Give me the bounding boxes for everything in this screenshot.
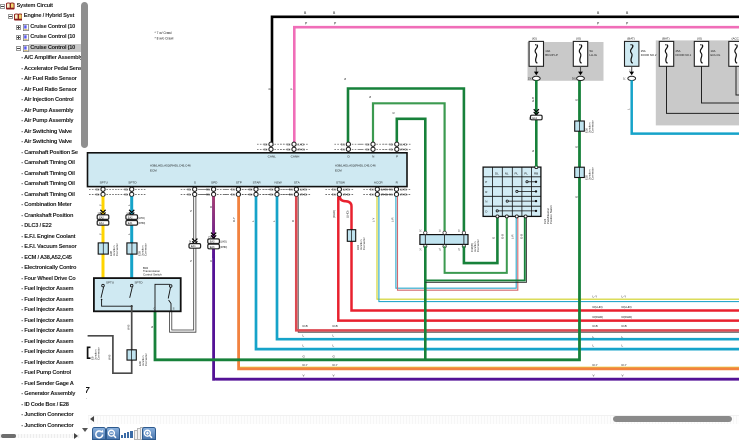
- svg-text:P: P: [305, 22, 308, 26]
- svg-text:(RHD): (RHD): [332, 210, 336, 218]
- tree row: E.F.I. Engine Coolant: [21, 233, 84, 242]
- svg-text:P: P: [485, 180, 487, 184]
- svg-text:(RHD): (RHD): [400, 148, 407, 152]
- svg-text:R(LHD): R(LHD): [622, 305, 632, 309]
- svg-text:V: V: [622, 374, 624, 378]
- node D (ECM top pin): [334, 142, 362, 159]
- wire (fuse F6 feed): [736, 66, 739, 95]
- svg-text:P: P: [396, 155, 398, 159]
- svg-text:(LHD): (LHD): [343, 188, 350, 192]
- svg-text:35(: 35(: [98, 213, 102, 216]
- svg-text:R-B: R-B: [593, 324, 598, 328]
- op-amp/ECU block: ECM A38,A52,C45,C46: [88, 153, 408, 187]
- tree row: Air Pump Assembly: [21, 117, 84, 126]
- fuse F2 5A LH-IG: [572, 36, 597, 80]
- svg-text:30(: 30(: [264, 148, 268, 152]
- wire (fuse F5 feed): [702, 66, 739, 103]
- svg-text:30(: 30(: [572, 77, 576, 81]
- main horizontal scrollbar: [88, 415, 739, 424]
- svg-text:(RHD): (RHD): [381, 193, 388, 197]
- svg-text:30(: 30(: [287, 142, 291, 146]
- svg-text:* 7 w/ Crawl: * 7 w/ Crawl: [155, 31, 172, 35]
- svg-text:(RHD): (RHD): [138, 222, 145, 225]
- wire L-R (R pin to C24): [396, 197, 516, 289]
- svg-text:30(: 30(: [366, 142, 370, 146]
- svg-text:30(: 30(: [332, 188, 336, 192]
- tree row: ID Code Box / E28: [21, 401, 84, 410]
- relay block shading (fuses BK/UP LP group): [528, 42, 604, 81]
- svg-text:STSW: STSW: [336, 181, 345, 185]
- svg-text:R-Y: R-Y: [593, 363, 598, 367]
- wire B (black bus to CANL): [272, 17, 739, 146]
- svg-text:B: B: [626, 11, 629, 15]
- svg-text:L: L: [303, 334, 305, 338]
- wire L (NSW): [277, 197, 739, 340]
- svg-text:30(: 30(: [249, 193, 253, 197]
- tree row: Fuel Injector Assem: [21, 359, 84, 368]
- svg-text:R(LHD): R(LHD): [593, 305, 603, 309]
- svg-text:R(RHD): R(RHD): [622, 315, 633, 319]
- svg-text:STA: STA: [294, 181, 301, 185]
- relay block shading (DOOR NO.1 group): [656, 40, 739, 125]
- node SPD (ECM bottom pin): [200, 181, 228, 197]
- svg-text:CANL: CANL: [268, 155, 277, 159]
- tree row: E.F.I. Vacuum Sensor: [21, 243, 84, 252]
- sidebar horizontal scrollbar: [0, 434, 80, 438]
- svg-text:W-B: W-B: [127, 324, 131, 330]
- svg-text:(BAT): (BAT): [662, 36, 670, 40]
- svg-text:Connector: Connector: [591, 167, 595, 180]
- svg-text:71(: 71(: [208, 236, 212, 239]
- svg-text:EA3: EA3: [210, 241, 215, 244]
- tree row: Crankshaft Position: [21, 212, 84, 221]
- wire L (STAR): [256, 197, 739, 350]
- svg-text:R: R: [209, 206, 213, 208]
- wire (fuse F4 feed): [667, 66, 739, 113]
- svg-text:Connector: Connector: [115, 243, 119, 256]
- node SPTU (ECM bottom pin): [89, 181, 117, 197]
- svg-text:30(: 30(: [124, 188, 128, 192]
- svg-text:9(: 9(: [189, 241, 191, 244]
- svg-text:30(: 30(: [96, 193, 100, 197]
- svg-text:30(: 30(: [370, 193, 374, 197]
- svg-text:G-B: G-B: [501, 234, 505, 239]
- svg-text:G-B: G-B: [531, 97, 535, 102]
- svg-text:RB: RB: [534, 171, 538, 175]
- svg-text:ECM: ECM: [335, 169, 342, 173]
- svg-text:30(: 30(: [289, 188, 293, 192]
- svg-text:L: L: [333, 344, 335, 348]
- svg-text:B: B: [267, 88, 271, 90]
- tree row: Accelerator Pedal Sens: [21, 65, 84, 74]
- svg-text:N: N: [372, 155, 374, 159]
- fuse F1 10A BK/UP LP: [528, 36, 558, 80]
- svg-text:EA2: EA2: [128, 216, 133, 219]
- tree row: System Circuit: [0, 4, 5, 9]
- svg-text:Connector: Connector: [476, 239, 480, 252]
- svg-text:A38(LHD),A52(RHD),C45,C46: A38(LHD),A52(RHD),C45,C46: [335, 164, 376, 168]
- tree row: Combination Meter: [21, 201, 84, 210]
- svg-text:* 8 w/o Crawl: * 8 w/o Crawl: [155, 37, 174, 41]
- svg-text:L: L: [272, 220, 276, 222]
- svg-text:30(: 30(: [389, 142, 393, 146]
- switch grid: C24 Park/Neutral Position Switch: [483, 166, 553, 224]
- svg-text:B: B: [304, 11, 307, 15]
- svg-text:Connector: Connector: [144, 243, 148, 256]
- tree row: Fuel Injector Assem: [21, 317, 84, 326]
- svg-text:30(: 30(: [332, 193, 336, 197]
- svg-text:ECU-IG: ECU-IG: [711, 53, 721, 57]
- junction connector E36: [575, 120, 595, 133]
- svg-text:-: -: [86, 397, 87, 401]
- svg-text:(RHD): (RHD): [343, 193, 350, 197]
- svg-text:G: G: [154, 306, 156, 310]
- svg-text:R-B: R-B: [622, 324, 627, 328]
- svg-text:Connector: Connector: [591, 120, 595, 133]
- node STSW (ECM bottom pin): [325, 181, 353, 197]
- svg-text:DOOR NO.2: DOOR NO.2: [641, 53, 657, 57]
- svg-text:LH-IG: LH-IG: [590, 53, 597, 57]
- wire G (transmission switch bus): [155, 81, 580, 360]
- wire Y (SPTU): [102, 197, 105, 280]
- wire G (C46 pin1 drop to green bus): [424, 246, 427, 359]
- svg-text:P: P: [290, 88, 294, 90]
- svg-text:NL: NL: [505, 171, 509, 175]
- junction connector E38: [98, 243, 119, 256]
- fuse F4 25A DOOR NO.1: [659, 36, 691, 66]
- tree row: Fuel Injector Assem: [21, 348, 84, 357]
- node CANH (ECM top pin): [280, 142, 308, 159]
- svg-text:30(: 30(: [370, 188, 374, 192]
- node NSW (ECM bottom pin): [263, 181, 291, 197]
- svg-text:ACCR: ACCR: [374, 181, 384, 185]
- svg-text:G: G: [575, 146, 579, 148]
- tree row: Junction Connector: [21, 411, 84, 420]
- tree row: Fuel Injector Assem: [21, 327, 84, 336]
- node STA (ECM bottom pin): [282, 181, 310, 197]
- svg-text:V: V: [303, 374, 305, 378]
- svg-text:L: L: [593, 344, 595, 348]
- tree row: Air Switching Valve: [21, 128, 84, 137]
- node SPTD (ECM bottom pin): [118, 181, 146, 197]
- svg-text:L-Y: L-Y: [593, 294, 598, 298]
- svg-text:S: S: [189, 260, 193, 262]
- wire G (ECM pin P loop): [397, 119, 426, 232]
- svg-text:Control Switch: Control Switch: [143, 273, 162, 277]
- wire R (STSW LHD branch via A34): [340, 197, 739, 311]
- node P (ECM top pin): [383, 142, 411, 159]
- svg-text:30(: 30(: [389, 148, 393, 152]
- wire P (pink bus to CANH): [294, 27, 739, 146]
- svg-text:3(: 3(: [529, 118, 531, 121]
- svg-text:30(: 30(: [389, 193, 393, 197]
- tree row: Fuel Injector Assem: [21, 285, 84, 294]
- svg-text:(LHD): (LHD): [220, 241, 227, 244]
- svg-text:G: G: [150, 326, 154, 328]
- svg-text:30(: 30(: [187, 193, 191, 197]
- svg-text:Y: Y: [98, 204, 102, 206]
- svg-text:(LHD): (LHD): [346, 210, 350, 218]
- svg-text:G: G: [392, 112, 396, 114]
- node S (ECM bottom pin): [181, 181, 209, 197]
- svg-text:L: L: [627, 108, 631, 110]
- svg-text:30(: 30(: [341, 148, 345, 152]
- svg-text:Y: Y: [98, 233, 102, 235]
- svg-text:SPTD: SPTD: [128, 181, 137, 185]
- fuse F6 (ACC): [729, 36, 739, 66]
- svg-text:G: G: [333, 354, 336, 358]
- svg-text:(RHD): (RHD): [298, 148, 305, 152]
- svg-text:30(: 30(: [270, 188, 274, 192]
- junction connector (clipped, left edge): [88, 347, 101, 360]
- junction connector E35: [575, 167, 595, 180]
- svg-text:(LHD): (LHD): [300, 188, 307, 192]
- wire S (twisted pair to B32): [172, 197, 194, 331]
- svg-text:(IG): (IG): [576, 36, 581, 40]
- tree row: Cruise Control: [16, 25, 21, 30]
- wire L (fuse F3 DOOR NO.2 feed): [632, 80, 739, 133]
- svg-text:30(: 30(: [96, 188, 100, 192]
- svg-text:L: L: [622, 344, 624, 348]
- tree row: Cruise Control: [29, 44, 86, 52]
- svg-text:L-Y: L-Y: [622, 294, 627, 298]
- switch block B32 Transmission Control Switch: [94, 266, 181, 312]
- svg-text:R-Y: R-Y: [303, 363, 308, 367]
- tree row: Junction Connector: [21, 422, 84, 431]
- wire R (STSW RHD branch): [338, 197, 739, 321]
- svg-text:(RHD): (RHD): [220, 246, 227, 249]
- tree row: Camshaft Timing Oil: [21, 159, 84, 168]
- svg-text:S: S: [189, 210, 193, 212]
- svg-text:L: L: [251, 220, 255, 222]
- svg-text:EA1: EA1: [191, 245, 196, 248]
- svg-text:L: L: [333, 334, 335, 338]
- junction connector E40: [127, 350, 148, 366]
- svg-text:7(: 7(: [419, 249, 421, 252]
- svg-text:Connector: Connector: [97, 347, 101, 360]
- svg-text:R-B: R-B: [303, 324, 308, 328]
- tree row: Four Wheel Drive Co: [21, 275, 84, 284]
- tree row: A/C Amplifier Assembly: [21, 54, 84, 63]
- tree row: ECM / A38,A52,C45: [21, 254, 84, 263]
- tree row: Air Pump Assembly: [21, 107, 84, 116]
- tree row: Cruise Control: [16, 35, 21, 40]
- svg-text:(LHD): (LHD): [400, 142, 407, 146]
- wire G (C46 pin3 to C24): [464, 216, 498, 263]
- svg-text:DOOR NO.1: DOOR NO.1: [676, 53, 692, 57]
- svg-text:SPTU: SPTU: [106, 281, 114, 285]
- wire G-B (C46 pin2 to C24): [445, 216, 507, 273]
- svg-text:(LHD): (LHD): [138, 217, 145, 220]
- svg-text:BK/UP LP: BK/UP LP: [545, 53, 558, 57]
- wire R-B (STA): [298, 197, 739, 333]
- svg-text:(BAT): (BAT): [627, 36, 635, 40]
- svg-text:G: G: [531, 150, 535, 152]
- tree row: Generator Assembly: [21, 390, 84, 399]
- svg-text:30(: 30(: [287, 148, 291, 152]
- tree row: Camshaft Timing Oil: [21, 170, 84, 179]
- wire G (ECM pin N loop): [373, 103, 445, 232]
- svg-text:1(: 1(: [458, 230, 460, 233]
- svg-text:7(: 7(: [439, 249, 441, 252]
- svg-text:PL: PL: [515, 171, 519, 175]
- svg-text:NSW: NSW: [274, 181, 281, 185]
- svg-text:STP: STP: [236, 181, 242, 185]
- svg-text:DL: DL: [495, 171, 499, 175]
- svg-text:R-Y: R-Y: [622, 363, 627, 367]
- tree row: Air Switching Valve: [21, 138, 84, 147]
- wire W-B (B32 to E40 / body ground side): [88, 306, 132, 373]
- svg-text:30(: 30(: [270, 193, 274, 197]
- zoom toolbar: [92, 427, 106, 440]
- sidebar vertical scrollbar thumb: [81, 2, 88, 148]
- svg-text:V: V: [333, 374, 335, 378]
- wire L-Y (ACCR): [377, 197, 739, 300]
- node R (ECM bottom pin): [383, 181, 411, 197]
- wire R-Y (STP): [238, 366, 739, 368]
- svg-text:P: P: [626, 22, 629, 26]
- node ACCR (ECM bottom pin): [363, 181, 391, 197]
- svg-text:SPD: SPD: [211, 181, 218, 185]
- svg-text:R: R: [291, 220, 295, 222]
- junction connector E39: [127, 243, 148, 256]
- svg-text:30(: 30(: [187, 188, 191, 192]
- svg-text:30(: 30(: [206, 193, 210, 197]
- svg-text:ECM: ECM: [150, 169, 157, 173]
- svg-text:L: L: [303, 344, 305, 348]
- svg-text:30(: 30(: [124, 193, 128, 197]
- tree row: Fuel Injector Assem: [21, 306, 84, 315]
- svg-text:V: V: [209, 260, 213, 262]
- svg-text:G: G: [343, 78, 347, 80]
- svg-text:STAR: STAR: [253, 181, 262, 185]
- wire L (SPTD): [130, 197, 133, 280]
- svg-text:EA1: EA1: [128, 222, 133, 225]
- svg-text:1(: 1(: [419, 230, 421, 233]
- svg-text:R-B: R-B: [333, 324, 338, 328]
- tree row: Fuel Sender Gage A: [21, 380, 84, 389]
- svg-text:W-B: W-B: [108, 354, 112, 360]
- svg-text:(LHD): (LHD): [298, 142, 305, 146]
- svg-text:G-B: G-B: [520, 234, 524, 239]
- fuse F5 10A ECU-IG NO.2: [694, 36, 720, 66]
- svg-text:R(RHD): R(RHD): [593, 315, 604, 319]
- svg-text:30(: 30(: [249, 188, 253, 192]
- svg-text:30(: 30(: [206, 188, 210, 192]
- svg-text:S: S: [194, 181, 196, 185]
- svg-text:L-R: L-R: [390, 217, 394, 222]
- tree row: Air Fuel Ratio Sensor: [21, 75, 84, 84]
- svg-text:Connector: Connector: [362, 237, 366, 250]
- svg-text:B: B: [597, 11, 600, 15]
- tree row: Fuel Pump Control: [21, 369, 84, 378]
- svg-text:P: P: [334, 22, 337, 26]
- wire G (ECM pin D loop): [348, 89, 464, 233]
- svg-text:30(: 30(: [231, 188, 235, 192]
- svg-text:1(: 1(: [439, 230, 441, 233]
- svg-text:L-R: L-R: [511, 234, 515, 239]
- node STP (ECM bottom pin): [224, 181, 252, 197]
- svg-text:EA3: EA3: [210, 246, 215, 249]
- tree row: DLC3 / E22: [21, 222, 84, 231]
- tree row: Camshaft Position Se: [21, 149, 84, 158]
- svg-text:G: G: [575, 196, 579, 198]
- svg-text:30(: 30(: [389, 188, 393, 192]
- svg-text:(RHD): (RHD): [300, 193, 307, 197]
- svg-text:G: G: [368, 96, 372, 98]
- svg-text:L-Y: L-Y: [372, 218, 376, 222]
- svg-text:(IG): (IG): [697, 36, 702, 40]
- svg-text:G: G: [303, 354, 306, 358]
- svg-text:G: G: [575, 99, 579, 101]
- svg-text:A38(LHD),A52(RHD),C45,C46: A38(LHD),A52(RHD),C45,C46: [150, 164, 191, 168]
- svg-text:30(: 30(: [231, 193, 235, 197]
- svg-text:7(: 7(: [458, 249, 460, 252]
- svg-text:S: S: [173, 306, 175, 310]
- svg-text:V: V: [593, 374, 595, 378]
- svg-text:30(: 30(: [264, 142, 268, 146]
- svg-text:EA1: EA1: [532, 117, 537, 120]
- fuse F3 25A DOOR NO.2: [623, 36, 657, 80]
- svg-text:SPTU: SPTU: [100, 181, 108, 185]
- svg-text:G: G: [492, 237, 496, 239]
- svg-text:23(: 23(: [528, 77, 532, 81]
- node STAR (ECM bottom pin): [242, 181, 270, 197]
- svg-text:CANH: CANH: [291, 155, 300, 159]
- svg-text:(RHD): (RHD): [400, 193, 407, 197]
- svg-text:30(: 30(: [289, 193, 293, 197]
- svg-text:Position Switch: Position Switch: [549, 205, 553, 224]
- tree row: Camshaft Timing Oil: [21, 180, 84, 189]
- tree row: Fuel Injector Assem: [21, 338, 84, 347]
- svg-text:Connector: Connector: [144, 353, 148, 366]
- svg-text:SPTD: SPTD: [135, 281, 144, 285]
- svg-text:(ACC): (ACC): [732, 36, 739, 40]
- svg-text:R-Y: R-Y: [333, 363, 338, 367]
- svg-text:1(: 1(: [623, 77, 625, 81]
- svg-text:B: B: [333, 11, 336, 15]
- zoom level bars: [121, 435, 123, 438]
- svg-text:(LHD): (LHD): [400, 188, 407, 192]
- junction connector C46 bar: [419, 230, 480, 253]
- wire G-B (fuse F1 to C24): [529, 80, 542, 166]
- junction connector A34: [347, 230, 366, 250]
- wire G-B (branch to C24): [425, 216, 526, 282]
- svg-text:PL: PL: [524, 171, 528, 175]
- tree row: Camshaft Timing Oil: [21, 191, 84, 200]
- svg-text:30(: 30(: [341, 142, 345, 146]
- tree row: Engine / Hybrid System: [8, 14, 13, 19]
- tree row: Electronically Contro: [21, 264, 84, 273]
- svg-text:N: N: [485, 200, 487, 204]
- tree row: Air Injection Control: [21, 96, 84, 105]
- node N (ECM top pin): [359, 142, 387, 159]
- svg-text:34(: 34(: [126, 213, 130, 216]
- node CANL (ECM top pin): [257, 142, 285, 159]
- svg-text:EA1: EA1: [99, 222, 104, 225]
- svg-text:30(: 30(: [366, 148, 370, 152]
- svg-text:(IG): (IG): [532, 36, 537, 40]
- tree row: Fuel Injector Assem: [21, 296, 84, 305]
- svg-text:EA2: EA2: [99, 216, 104, 219]
- svg-text:R-Y: R-Y: [232, 217, 236, 222]
- svg-text:P: P: [597, 22, 600, 26]
- tree row: Air Fuel Ratio Sensor: [21, 86, 84, 95]
